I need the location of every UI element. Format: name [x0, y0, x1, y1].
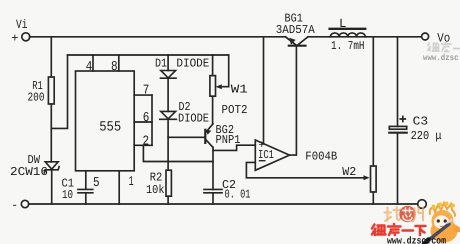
wire R1 branch from top rail	[50, 37, 52, 77]
wire D2 to R2	[167, 119, 169, 170]
faint tiled watermark top-right	[423, 42, 460, 63]
wire op-amp output to BG1 base	[290, 46, 297, 155]
svg-text:2CW16: 2CW16	[10, 165, 48, 179]
wire bottom rail	[29, 203, 418, 205]
wire R1 to zener	[50, 104, 52, 162]
resistor R1	[48, 77, 54, 104]
svg-text:-: -	[11, 199, 18, 213]
text zhao xin pian	[385, 207, 401, 221]
svg-text:Vi: Vi	[16, 18, 28, 32]
svg-text:7: 7	[143, 84, 150, 99]
potentiometer W2	[372, 37, 374, 166]
svg-text:C3: C3	[413, 115, 429, 129]
wire R2 to rail	[167, 196, 169, 204]
watermark logo	[372, 202, 460, 244]
svg-text:POT2: POT2	[222, 103, 248, 117]
wire pin2 stub	[134, 144, 152, 146]
capacitor C3	[389, 126, 406, 129]
wire pin4 tick	[92, 55, 94, 71]
svg-text:+: +	[11, 31, 18, 45]
wire zener to bottom rail	[51, 170, 53, 204]
svg-text:+: +	[259, 140, 266, 152]
transistor BG1	[286, 37, 297, 45]
svg-text:www.dzsc.com: www.dzsc.com	[387, 236, 446, 244]
svg-text:4: 4	[86, 60, 93, 75]
wire regulated vcc line	[68, 54, 229, 56]
diode DW zener	[45, 162, 58, 169]
node Vo+ terminal	[422, 33, 429, 40]
svg-text:2: 2	[143, 134, 150, 149]
svg-text:3AD57A: 3AD57A	[276, 23, 316, 37]
svg-text:1. 7mH: 1. 7mH	[331, 39, 365, 53]
wire pin strip vertical	[151, 95, 153, 145]
wire op-amp vplus from rail	[263, 37, 265, 144]
svg-text:W2: W2	[342, 165, 356, 179]
diode D2	[161, 111, 176, 118]
text wei ku yi xia (red)	[372, 224, 426, 235]
svg-text:D1: D1	[155, 56, 167, 70]
svg-text:8: 8	[111, 60, 118, 75]
wire C3 branch	[397, 37, 399, 127]
wire W1 wiper	[220, 55, 229, 87]
wire BG2 collector down	[212, 148, 214, 190]
wire pin7 stub	[134, 94, 152, 96]
wire BG2 base wire	[168, 136, 204, 138]
inductor L core bar	[330, 28, 366, 30]
inductor L coil	[330, 33, 365, 37]
wire D1 branch from vcc	[167, 55, 169, 71]
diode D1	[161, 71, 176, 78]
transistor BG2	[204, 130, 206, 143]
node Vo- terminal	[418, 200, 427, 209]
label opamp minus	[259, 160, 266, 161]
wire pin2 down leg	[143, 145, 213, 161]
svg-text:W1: W1	[231, 83, 248, 97]
op-amp 555 box U1	[76, 71, 135, 171]
wire pin5 leg	[85, 171, 87, 189]
svg-text:DIODE: DIODE	[178, 112, 209, 126]
mascot	[424, 202, 460, 244]
wire top rail	[30, 36, 286, 38]
svg-text:10: 10	[62, 188, 73, 202]
wire pin6 stub	[134, 121, 152, 123]
node Vi+ terminal	[22, 33, 30, 41]
node Vi- terminal	[21, 200, 28, 207]
wire op-amp minus input	[246, 162, 365, 177]
op-amp IC1	[255, 140, 289, 170]
svg-text:555: 555	[99, 119, 121, 135]
svg-text:5: 5	[93, 176, 100, 191]
svg-text:220 μ: 220 μ	[411, 129, 442, 143]
svg-text:www.dzsc.: www.dzsc.	[423, 53, 460, 63]
svg-text:1: 1	[129, 175, 134, 190]
svg-text:PNP1: PNP1	[216, 133, 241, 147]
C3 polarity plus	[400, 117, 405, 122]
capacitor C2	[204, 188, 222, 190]
svg-text:200: 200	[28, 91, 45, 105]
potentiometer W1	[212, 55, 214, 76]
svg-text:F004B: F004B	[305, 150, 337, 164]
svg-text:L: L	[339, 17, 347, 31]
svg-text:10k: 10k	[146, 183, 165, 197]
wire pin1 leg	[118, 171, 120, 204]
svg-text:0. 01: 0. 01	[225, 188, 251, 202]
svg-text:6: 6	[143, 111, 150, 126]
wire zener node to vcc corner	[51, 55, 67, 128]
wire pin8 tick	[118, 55, 120, 71]
capacitor C1	[78, 188, 93, 190]
wire op-amp plus input	[213, 145, 255, 150]
wire D1 to D2	[167, 78, 169, 111]
resistor R2	[166, 170, 171, 196]
svg-text:DIODE: DIODE	[176, 56, 209, 70]
